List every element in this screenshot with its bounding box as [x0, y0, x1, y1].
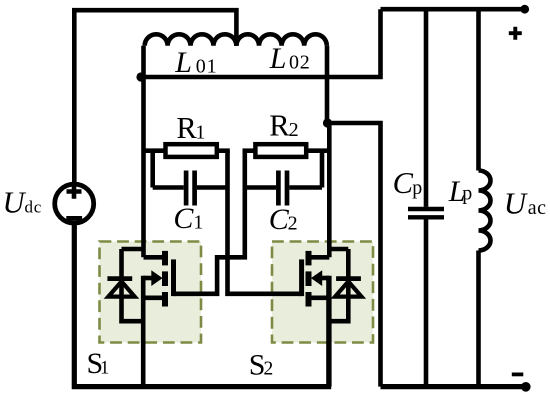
svg-text:p: p [462, 182, 472, 204]
wire S2 drain rail [327, 46, 329, 257]
wire S1 drain rail [141, 46, 146, 257]
svg-text:R: R [176, 111, 197, 145]
svg-text:U: U [3, 186, 27, 220]
inductor L02 [236, 34, 326, 46]
svg-text:C: C [393, 166, 414, 200]
diode D2 [329, 247, 348, 252]
label minus [512, 372, 524, 376]
capacitor C2 [245, 185, 276, 190]
svg-text:2: 2 [289, 119, 299, 141]
svg-text:p: p [412, 177, 422, 199]
inductor L01 [145, 34, 237, 45]
svg-text:02: 02 [289, 52, 311, 74]
svg-text:1: 1 [193, 212, 203, 234]
voltage source Udc [55, 184, 94, 223]
svg-text:2: 2 [264, 359, 274, 380]
wire R2 left lead [243, 148, 256, 153]
wire RC1 left bracket [150, 151, 155, 188]
wire source bottom lead and bottom-left rail [74, 223, 331, 386]
wire bottom-right rail [381, 384, 527, 389]
resistor R1 [166, 144, 217, 157]
terminal dot minus [521, 382, 531, 392]
svg-text:2: 2 [288, 213, 298, 235]
green box S1 [100, 242, 202, 343]
capacitor Cp [424, 9, 429, 207]
wire mid horizontal to plus rail [144, 9, 381, 77]
transistor S2 [309, 255, 330, 260]
svg-text:1: 1 [100, 358, 109, 378]
wire R1 left lead [144, 148, 166, 153]
terminal dot plus [520, 5, 529, 14]
inductor Lp [476, 9, 481, 170]
resistor R2 [255, 144, 306, 157]
svg-text:L: L [269, 42, 287, 75]
diode D1 [122, 247, 144, 252]
capacitor C1 [153, 185, 184, 190]
wire V2 bracket to S1 gate [174, 151, 245, 294]
svg-text:dc: dc [25, 198, 43, 217]
svg-text:U: U [504, 186, 529, 221]
svg-text:R: R [269, 109, 290, 143]
wire V1 bracket to S2 gate [228, 151, 302, 294]
svg-text:L: L [174, 46, 192, 79]
svg-text:ac: ac [528, 197, 547, 219]
wire RC2 right bracket [320, 151, 325, 188]
green box S2 [272, 242, 373, 343]
wire R2 right lead [306, 148, 330, 153]
junction dot right [323, 118, 332, 127]
svg-text:C: C [173, 202, 194, 235]
junction dot left [136, 72, 145, 81]
svg-text:01: 01 [196, 55, 218, 77]
wire S2 drain to minus rail [328, 123, 381, 387]
svg-text:1: 1 [195, 122, 205, 144]
transistor S1 [144, 255, 166, 260]
wire R1 right lead [217, 148, 230, 153]
wire top-left [74, 10, 236, 182]
label plus [509, 27, 522, 40]
wire top-right [381, 7, 525, 12]
